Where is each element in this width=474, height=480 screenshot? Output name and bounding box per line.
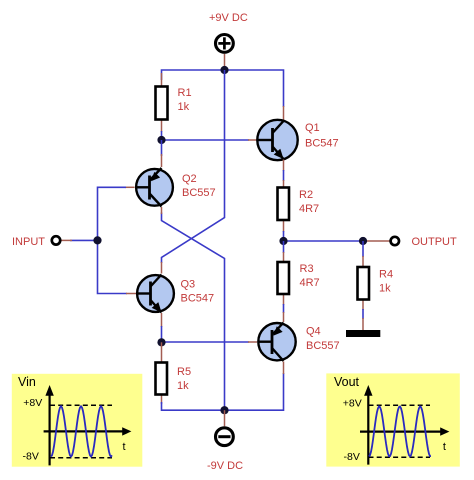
- transistor Q2 (PNP BC557): [135, 168, 173, 207]
- transistor Q1 (NPN BC547): [257, 120, 297, 160]
- wire R2 bottom to junction C: [283, 231, 285, 241]
- svg-text:+8V: +8V: [343, 397, 362, 409]
- svg-text:1k: 1k: [177, 380, 189, 392]
- svg-text:4R7: 4R7: [299, 203, 319, 215]
- pin lead of +9V supply: [224, 54, 226, 67]
- wire input terminal to left column: [70, 239, 98, 241]
- wire junction C down to R3: [283, 241, 285, 253]
- wire Q2 collector down to bottom rail (crossing): [162, 213, 225, 411]
- resistor R4: [358, 256, 370, 310]
- wire junction B to Q4 base: [162, 341, 250, 343]
- svg-text:1k: 1k: [178, 101, 190, 113]
- ground: [346, 330, 380, 337]
- svg-text:R2: R2: [299, 189, 313, 201]
- svg-text:Q1: Q1: [305, 122, 320, 134]
- wire bottom rail: [162, 373, 284, 410]
- wire centre column down to Q3 collector (crossing): [162, 70, 225, 263]
- pin lead of -9V supply: [224, 410, 226, 426]
- junction bottom rail: [220, 406, 228, 414]
- svg-text:Q3: Q3: [181, 279, 196, 291]
- junction D: [359, 237, 367, 245]
- power supply -9V: [216, 428, 234, 446]
- wire junction A to Q1 base: [162, 139, 250, 141]
- wire R1 bottom to junction A: [161, 131, 163, 140]
- wire Q3 emitter to junction B: [161, 326, 163, 343]
- sine wave Vin: [51, 406, 112, 456]
- junction A: [157, 136, 165, 144]
- svg-text:R1: R1: [178, 87, 192, 99]
- junction input: [93, 236, 101, 244]
- svg-text:1k: 1k: [379, 283, 391, 295]
- resistor R5: [156, 342, 168, 404]
- wire Q1 emitter to R2: [283, 170, 285, 181]
- pin lead ground: [362, 318, 364, 330]
- dashed level -8V (Vin): [50, 457, 112, 459]
- axis horizontal (Vout): [360, 431, 442, 433]
- wire junction D down to R4: [362, 241, 364, 257]
- wire left column (input): [98, 187, 128, 293]
- pin lead Q2 collector (bottom): [161, 207, 163, 214]
- sine wave Vout: [369, 407, 431, 457]
- transistor Q3 (NPN BC547): [136, 275, 174, 313]
- axis horizontal (Vin): [44, 430, 124, 432]
- waveform box Vin: [12, 374, 143, 467]
- wire junction A down to Q2 emitter: [161, 140, 163, 156]
- pin lead Q3 collector (top): [161, 262, 163, 274]
- dashed level +8V (Vin): [50, 404, 112, 406]
- pin lead Q2 emitter (top): [161, 154, 163, 167]
- svg-text:+8V: +8V: [23, 397, 42, 409]
- svg-text:-8V: -8V: [23, 451, 39, 463]
- pin lead Q1 base: [248, 139, 257, 141]
- wire R3 bottom to Q4 emitter: [283, 304, 285, 313]
- svg-text:R4: R4: [379, 269, 393, 281]
- axis vertical (Vout): [367, 394, 369, 465]
- svg-text:R3: R3: [300, 263, 314, 275]
- terminal OUTPUT: [391, 237, 399, 245]
- pin lead Q4 base: [248, 341, 257, 343]
- resistor R1: [156, 73, 168, 132]
- wire top rail: [162, 70, 284, 107]
- svg-text:BC547: BC547: [305, 138, 339, 150]
- wire R4 bottom to ground: [362, 309, 364, 319]
- junction B: [157, 338, 165, 346]
- svg-text:4R7: 4R7: [300, 277, 320, 289]
- svg-text:BC547: BC547: [181, 293, 215, 305]
- pin lead Q3 emitter (bottom): [161, 313, 163, 327]
- waveform box Vout: [326, 373, 460, 466]
- pin lead output terminal: [363, 240, 390, 242]
- power supply +9V: [216, 35, 234, 53]
- terminal INPUT: [52, 236, 60, 244]
- svg-text:Q4: Q4: [306, 326, 321, 338]
- svg-text:R5: R5: [177, 366, 191, 378]
- pin lead input terminal: [61, 239, 72, 241]
- pin lead Q4 collector (bottom): [283, 362, 285, 375]
- pin lead Q3 base: [126, 293, 136, 295]
- resistor R3: [278, 252, 290, 305]
- svg-text:-8V: -8V: [344, 451, 360, 463]
- svg-text:t: t: [443, 441, 446, 453]
- junction on top rail: [220, 66, 228, 74]
- svg-text:INPUT: INPUT: [12, 236, 45, 248]
- pin lead Q4 emitter (top): [283, 312, 285, 322]
- svg-text:BC557: BC557: [182, 187, 216, 199]
- resistor R2: [278, 180, 290, 232]
- dashed level +8V (Vout): [369, 404, 431, 406]
- svg-text:Q2: Q2: [182, 173, 197, 185]
- junction C: [279, 237, 287, 245]
- svg-text:BC557: BC557: [306, 340, 340, 352]
- transistor Q4 (PNP BC557): [258, 323, 296, 362]
- axis vertical (Vin): [48, 394, 50, 465]
- svg-text:+9V DC: +9V DC: [209, 12, 248, 24]
- svg-text:Vout: Vout: [334, 375, 360, 389]
- svg-text:-9V DC: -9V DC: [207, 460, 243, 472]
- svg-text:t: t: [123, 441, 126, 453]
- svg-text:OUTPUT: OUTPUT: [412, 236, 458, 248]
- wire junction C to junction D: [284, 240, 364, 242]
- dashed level -8V (Vout): [369, 456, 431, 458]
- pin lead Q1 collector (top): [283, 106, 285, 120]
- svg-text:Vin: Vin: [18, 375, 36, 389]
- pin lead Q1 emitter (bottom): [283, 160, 285, 172]
- pin lead Q2 base: [125, 186, 135, 188]
